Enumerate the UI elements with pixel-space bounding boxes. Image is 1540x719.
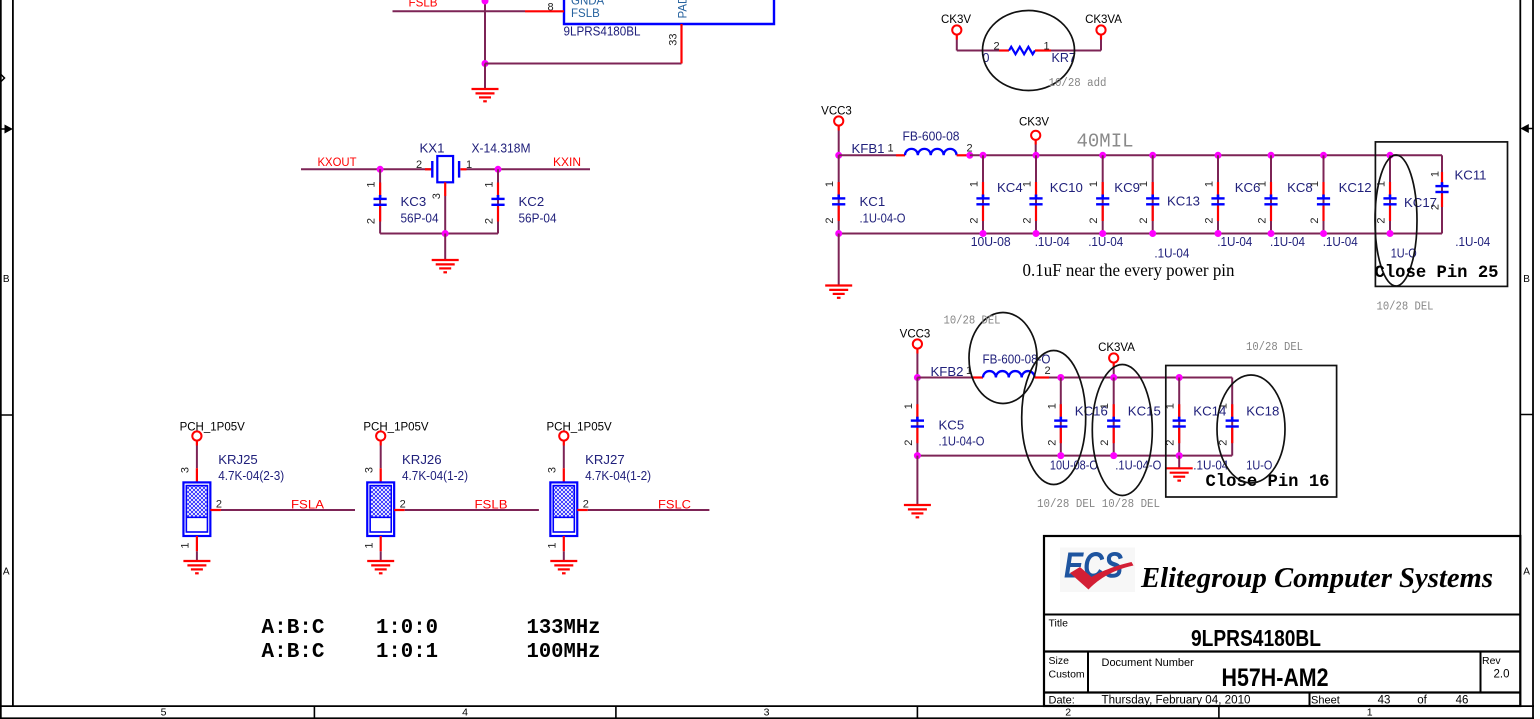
top power bus (970, 154, 1442, 156)
svg-text:2: 2 (1088, 217, 1100, 223)
svg-text:1: 1 (1367, 706, 1373, 718)
junction bottom node (442, 230, 449, 237)
svg-text:.1U-04: .1U-04 (1035, 234, 1070, 249)
junction KC10 top (1033, 152, 1040, 159)
svg-text:PCH_1P05V: PCH_1P05V (180, 421, 246, 433)
junction KC10 bottom (1033, 230, 1040, 237)
capacitor KC4 (982, 155, 984, 233)
wire FSLC (588, 509, 710, 511)
svg-text:CK3VA: CK3VA (1085, 14, 1122, 26)
svg-text:1: 1 (1309, 181, 1321, 187)
ground (183, 560, 210, 562)
svg-text:Thursday, February 04, 2010: Thursday, February 04, 2010 (1102, 695, 1251, 707)
resistor network KRJ25 (183, 482, 210, 536)
wire crystal to bottom node (444, 196, 446, 234)
left border row tick (1, 414, 13, 416)
annotation ellipse around KR7 (983, 11, 1075, 91)
svg-text:1: 1 (1257, 181, 1269, 187)
svg-text:.1U-04: .1U-04 (1323, 234, 1358, 249)
svg-text:A: A (3, 567, 10, 578)
wire to ground (380, 551, 382, 561)
capacitor KC5 (916, 378, 918, 456)
wire VCC3 down (916, 349, 918, 354)
svg-text:GNDA: GNDA (571, 0, 605, 8)
svg-text:KRJ27: KRJ27 (585, 452, 625, 467)
svg-text:1: 1 (547, 542, 559, 548)
svg-text:1: 1 (1099, 403, 1111, 409)
bottom bus 2 (917, 455, 1232, 457)
svg-text:2: 2 (1046, 440, 1058, 446)
resistor network KRJ27 (550, 482, 577, 536)
svg-text:.1U-04-O: .1U-04-O (939, 433, 985, 448)
svg-text:2: 2 (1022, 217, 1034, 223)
title block frame (1044, 536, 1520, 706)
svg-text:.1U-04: .1U-04 (1455, 234, 1490, 249)
svg-text:2: 2 (824, 217, 836, 223)
svg-text:5: 5 (161, 706, 167, 718)
svg-text:FSLB: FSLB (571, 8, 600, 20)
wire to ground (563, 551, 565, 561)
wire PCH_1P05V down (196, 441, 198, 446)
svg-text:46: 46 (1456, 695, 1469, 707)
svg-text:FSLA: FSLA (291, 500, 324, 512)
junction KC1 bottom (835, 230, 842, 237)
svg-text:.1U-04: .1U-04 (1217, 234, 1252, 249)
KRJ25 pin 3 stub (196, 468, 198, 482)
svg-text:100MHz: 100MHz (527, 641, 601, 664)
wire KC1 to ground (838, 234, 840, 286)
KFB2 right stub (1035, 376, 1049, 378)
junction KC4 top (980, 152, 987, 159)
svg-text:9LPRS4180BL: 9LPRS4180BL (564, 23, 641, 38)
svg-text:1: 1 (1429, 171, 1441, 177)
svg-text:1: 1 (887, 142, 893, 154)
svg-text:1: 1 (1088, 181, 1100, 187)
svg-text:KRJ25: KRJ25 (218, 452, 258, 467)
capacitor KC14 (1178, 378, 1180, 456)
svg-text:FSLB: FSLB (475, 500, 508, 512)
IC U1 9LPRS4180BL body fragment (564, 0, 774, 24)
svg-text:56P-04: 56P-04 (401, 210, 439, 225)
svg-text:2: 2 (1138, 217, 1150, 223)
svg-text:Title: Title (1049, 618, 1069, 630)
KRJ25 pin 2 stub (210, 509, 221, 511)
junction at FSLB top (482, 0, 489, 5)
junction KC5 bottom (914, 452, 921, 459)
capacitor KC15 (1113, 378, 1115, 456)
svg-text:CK3V: CK3V (1019, 116, 1049, 128)
wire PCH_1P05V down (380, 441, 382, 446)
svg-text:A: A (1523, 567, 1530, 578)
svg-text:Sheet: Sheet (1311, 695, 1340, 707)
svg-text:2: 2 (969, 217, 981, 223)
KRJ26 pin 3 stub (380, 468, 382, 482)
svg-text:1:0:1: 1:0:1 (376, 641, 438, 664)
wire PCH_1P05V down (563, 441, 565, 446)
svg-text:Date:: Date: (1049, 695, 1075, 707)
capacitor KC9 (1102, 155, 1104, 233)
svg-text:Custom: Custom (1049, 669, 1085, 681)
left border chevron marker (0, 74, 5, 83)
svg-text:40MIL: 40MIL (1077, 130, 1134, 152)
svg-text:KFB1: KFB1 (852, 141, 885, 156)
capacitor KC11 (1441, 155, 1443, 233)
capacitor KC10 (1035, 155, 1037, 233)
svg-text:CK3V: CK3V (941, 14, 971, 26)
svg-text:Close Pin 25: Close Pin 25 (1375, 264, 1499, 283)
svg-text:1:0:0: 1:0:0 (376, 617, 438, 640)
junction at ground branch (482, 60, 489, 67)
svg-text:Elitegroup Computer Systems: Elitegroup Computer Systems (1140, 562, 1493, 594)
junction KC3 tap (377, 166, 384, 173)
svg-text:0.1uF near the every power pin: 0.1uF near the every power pin (1023, 260, 1235, 280)
annotation ellipse around KC15 (1092, 365, 1152, 496)
svg-text:3: 3 (764, 706, 770, 718)
capacitor KC17 (1389, 155, 1391, 233)
wire to ground (196, 551, 198, 561)
ground (472, 88, 499, 90)
svg-text:of: of (1417, 695, 1427, 707)
svg-text:1: 1 (969, 181, 981, 187)
svg-text:KC12: KC12 (1339, 180, 1372, 195)
wire horizontal to pin 33 (485, 63, 682, 65)
junction KC4 bottom (980, 230, 987, 237)
svg-text:10/28 DEL: 10/28 DEL (1246, 341, 1303, 354)
pin 8 stub (525, 10, 564, 12)
svg-text:X-14.318M: X-14.318M (472, 141, 531, 156)
svg-text:KX1: KX1 (420, 141, 445, 156)
svg-text:3: 3 (431, 193, 443, 199)
junction KC17 bottom (1387, 230, 1394, 237)
junction KC14 bottom (1176, 452, 1183, 459)
KRJ25 pin 1 stub (196, 536, 198, 551)
svg-text:H57H-AM2: H57H-AM2 (1222, 664, 1329, 692)
wire VCC3 down (838, 126, 840, 131)
svg-text:10U-08: 10U-08 (971, 234, 1011, 249)
wire vertical to ground net (484, 0, 486, 64)
annotation ellipse around KC16 (1022, 351, 1086, 485)
junction KC17 top (1387, 152, 1394, 159)
junction KC16 top (1057, 374, 1064, 381)
svg-text:1: 1 (363, 542, 375, 548)
junction KC15 bottom (1110, 452, 1117, 459)
bottom ground bus (839, 233, 1442, 235)
svg-text:2: 2 (583, 499, 589, 511)
svg-text:.1U-04: .1U-04 (1270, 234, 1305, 249)
capacitor KC18 (1231, 378, 1233, 456)
svg-text:10/28 DEL 10/28 DEL: 10/28 DEL 10/28 DEL (1037, 498, 1160, 511)
svg-text:2: 2 (1044, 365, 1050, 377)
junction KC8 top (1268, 152, 1275, 159)
right border arrow marker (1520, 124, 1533, 133)
svg-text:KC3: KC3 (401, 194, 427, 209)
svg-text:.1U-04: .1U-04 (1088, 234, 1123, 249)
svg-text:Rev: Rev (1482, 655, 1501, 667)
junction KC13 top (1149, 152, 1156, 159)
svg-text:10/28 DEL: 10/28 DEL (944, 315, 1001, 328)
svg-text:33: 33 (668, 33, 680, 45)
junction KC8 bottom (1268, 230, 1275, 237)
svg-text:4.7K-04(1-2): 4.7K-04(1-2) (585, 468, 651, 483)
svg-text:KRJ26: KRJ26 (402, 452, 442, 467)
wire to ground (444, 234, 446, 261)
svg-text:1: 1 (366, 181, 378, 187)
top power bus 2 (1049, 377, 1232, 379)
capacitor KC2 (497, 169, 499, 233)
capacitor KC16 (1060, 378, 1062, 456)
svg-text:10/28 DEL: 10/28 DEL (1377, 301, 1434, 314)
junction KC9 bottom (1099, 230, 1106, 237)
svg-text:KC9: KC9 (1114, 180, 1140, 195)
junction KC16 bottom (1057, 452, 1064, 459)
capacitor KC13 (1152, 155, 1154, 233)
svg-text:KC18: KC18 (1246, 404, 1279, 419)
svg-text:1: 1 (180, 542, 192, 548)
svg-text:1: 1 (1043, 41, 1049, 53)
svg-text:2: 2 (1099, 440, 1111, 446)
capacitor KC6 (1217, 155, 1219, 233)
svg-text:CK3VA: CK3VA (1098, 342, 1135, 354)
svg-text:PAD: PAD (678, 0, 690, 19)
svg-text:A:B:C: A:B:C (262, 617, 325, 640)
junction KC6 bottom (1215, 230, 1222, 237)
svg-text:10/28 add: 10/28 add (1049, 77, 1107, 90)
svg-text:KXIN: KXIN (553, 157, 581, 169)
svg-text:FSLB: FSLB (409, 0, 438, 9)
junction KC15 top (1110, 374, 1117, 381)
svg-text:4: 4 (462, 706, 468, 718)
ground (1166, 467, 1193, 469)
svg-text:KC15: KC15 (1128, 404, 1161, 419)
svg-text:133MHz: 133MHz (527, 617, 601, 640)
svg-text:FB-600-08-O: FB-600-08-O (983, 352, 1051, 367)
annotation ellipse around KC18 (1217, 375, 1285, 483)
svg-text:Size: Size (1049, 655, 1070, 667)
svg-text:.1U-04-O: .1U-04-O (860, 210, 906, 225)
svg-text:2: 2 (993, 41, 999, 53)
KRJ26 pin 1 stub (380, 536, 382, 551)
svg-text:1: 1 (1138, 181, 1150, 187)
annotation ellipse around KFB2 (969, 313, 1037, 404)
wire KC14 ground stub (1178, 456, 1180, 469)
svg-text:1: 1 (1046, 403, 1058, 409)
svg-text:2: 2 (1065, 706, 1071, 718)
KRJ27 pin 3 stub (563, 468, 565, 482)
svg-text:PCH_1P05V: PCH_1P05V (363, 421, 429, 433)
svg-text:KC5: KC5 (939, 418, 965, 433)
svg-text:B: B (3, 274, 10, 285)
wire KXOUT (301, 168, 432, 170)
svg-text:KC1: KC1 (860, 194, 886, 209)
wire KXIN (467, 168, 591, 170)
svg-text:1: 1 (903, 403, 915, 409)
ferrite bead KFB1 (839, 154, 905, 156)
svg-text:3: 3 (547, 467, 559, 473)
junction VCC3 node (835, 152, 842, 159)
svg-text:2: 2 (1204, 217, 1216, 223)
capacitor KC8 (1270, 155, 1272, 233)
ECS logo (1060, 545, 1135, 593)
crystal KX1 (425, 156, 467, 196)
svg-text:1: 1 (1022, 181, 1034, 187)
annotation ellipse around KC17 (1375, 155, 1417, 286)
svg-text:2: 2 (1376, 217, 1388, 223)
capacitor KC1 (838, 155, 840, 233)
junction KC2 tap (495, 166, 502, 173)
svg-text:2: 2 (366, 218, 378, 224)
wire CK3V to resistor (956, 35, 958, 40)
wire FSLA (221, 509, 355, 511)
right border row tick (1520, 414, 1533, 416)
junction KC12 top (1320, 152, 1327, 159)
wire KC5 to ground (916, 456, 918, 505)
ground (432, 259, 459, 261)
wire resistor to CK3VA (1051, 50, 1101, 52)
svg-text:56P-04: 56P-04 (519, 210, 557, 225)
ferrite bead KFB2 (917, 377, 983, 379)
svg-text:Document Number: Document Number (1102, 657, 1195, 669)
capacitor KC3 (379, 169, 381, 233)
junction KC12 bottom (1320, 230, 1327, 237)
svg-text:2: 2 (1309, 217, 1321, 223)
junction KC6 top (1215, 152, 1222, 159)
svg-text:2.0: 2.0 (1494, 669, 1510, 681)
svg-text:KC4: KC4 (997, 180, 1023, 195)
junction KC14 top (1176, 374, 1183, 381)
pin 33 stub (680, 24, 682, 64)
svg-text:1U-O: 1U-O (1246, 458, 1272, 473)
KFB1 right stub (957, 154, 968, 156)
svg-text:A:B:C: A:B:C (262, 641, 325, 664)
ground (550, 560, 577, 562)
KRJ27 pin 1 stub (563, 536, 565, 551)
svg-text:1: 1 (1204, 181, 1216, 187)
junction KC13 bottom (1149, 230, 1156, 237)
svg-text:VCC3: VCC3 (900, 329, 931, 341)
ground (367, 560, 394, 562)
svg-text:KXOUT: KXOUT (318, 157, 357, 169)
svg-text:KFB2: KFB2 (931, 364, 964, 379)
svg-text:4.7K-04(2-3): 4.7K-04(2-3) (218, 468, 284, 483)
wire bottom node (380, 233, 498, 235)
svg-text:PCH_1P05V: PCH_1P05V (546, 421, 612, 433)
wire FSLB (405, 509, 539, 511)
resistor KR7 (999, 47, 1051, 54)
svg-text:3: 3 (363, 467, 375, 473)
svg-text:2: 2 (484, 218, 496, 224)
svg-text:B: B (1523, 274, 1530, 285)
svg-text:2: 2 (903, 440, 915, 446)
ground (904, 504, 931, 506)
svg-text:KC2: KC2 (519, 194, 545, 209)
wire FSLB horizontal (393, 10, 526, 12)
svg-text:.1U-04-O: .1U-04-O (1115, 458, 1161, 473)
svg-text:FSLC: FSLC (658, 500, 691, 512)
left border arrow marker (0, 125, 13, 134)
svg-text:4.7K-04(1-2): 4.7K-04(1-2) (402, 468, 468, 483)
svg-text:FB-600-08: FB-600-08 (903, 129, 960, 144)
capacitor KC12 (1323, 155, 1325, 233)
svg-text:2: 2 (1218, 440, 1230, 446)
annotation box Close Pin 25 (1375, 142, 1507, 287)
junction KC9 top (1099, 152, 1106, 159)
svg-text:2: 2 (1429, 204, 1441, 210)
junction KFB1 pin2 (966, 152, 973, 159)
svg-text:KC11: KC11 (1455, 168, 1487, 183)
svg-text:2: 2 (400, 499, 406, 511)
svg-text:9LPRS4180BL: 9LPRS4180BL (1191, 625, 1321, 651)
svg-text:2: 2 (416, 159, 422, 171)
svg-text:2: 2 (1257, 217, 1269, 223)
svg-text:VCC3: VCC3 (821, 105, 852, 117)
resistor network KRJ26 (367, 482, 394, 536)
KRJ26 pin 2 stub (394, 509, 405, 511)
svg-text:1: 1 (484, 181, 496, 187)
svg-text:2: 2 (216, 499, 222, 511)
svg-text:3: 3 (180, 467, 192, 473)
wire to ground symbol (484, 64, 486, 90)
svg-text:KC13: KC13 (1167, 194, 1200, 209)
svg-text:1: 1 (824, 181, 836, 187)
junction VCC3 node 2 (914, 374, 921, 381)
KRJ27 pin 2 stub (577, 509, 588, 511)
annotation box Close Pin 16 (1166, 366, 1337, 498)
svg-text:.1U-04: .1U-04 (1154, 246, 1189, 261)
svg-text:43: 43 (1378, 695, 1391, 707)
ground (825, 284, 852, 286)
svg-text:KC10: KC10 (1050, 180, 1083, 195)
